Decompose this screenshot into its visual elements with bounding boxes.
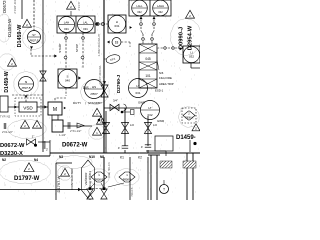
svg-text:031: 031 [135,91,140,95]
svg-text:18: 18 [115,40,119,44]
svg-text:(mat) HOLD 3: (mat) HOLD 3 [108,162,111,178]
svg-text:P807 B: P807 B [30,38,39,42]
svg-text:LO: LO [130,123,135,127]
svg-text:2-P807-3016-WA-PP: 2-P807-3016-WA-PP [98,33,101,56]
svg-text:K2: K2 [138,156,142,160]
svg-text:DIS: DIS [83,86,89,90]
svg-text:D1459-W: D1459-W [4,71,10,92]
svg-text:STANDBY: STANDBY [88,101,102,105]
svg-text:D3230-X: D3230-X [0,151,23,157]
svg-text:DUTY: DUTY [73,101,81,105]
svg-text:SY: SY [32,33,36,37]
svg-text:F&G FIRE: F&G FIRE [159,76,172,80]
svg-text:AREA TRIP: AREA TRIP [159,82,174,86]
svg-text:(mat) HOLD 3: (mat) HOLD 3 [88,170,92,187]
svg-text:LT: LT [148,106,151,110]
svg-text:D2954-W: D2954-W [188,25,194,50]
svg-text:031: 031 [64,27,69,31]
svg-text:LAHH: LAHH [157,4,164,8]
svg-text:SI: SI [25,80,28,84]
svg-text:START: START [58,43,62,53]
svg-text:2"X3/4"-3016: 2"X3/4"-3016 [13,0,17,14]
svg-text:032: 032 [137,10,142,14]
svg-text:LT: LT [136,84,139,88]
svg-text:VSD: VSD [23,106,33,111]
svg-text:STOP: STOP [75,44,79,52]
svg-text:T: T [163,188,165,192]
svg-text:N/6: N/6 [159,71,164,75]
svg-text:HOLD 5: HOLD 5 [131,187,134,196]
svg-text:D0672-W: D0672-W [62,143,88,149]
svg-text:2"X1'-6": 2"X1'-6" [77,1,81,10]
svg-text:032: 032 [189,54,194,58]
svg-text:D1459-W: D1459-W [7,18,12,37]
svg-text:P807 B: P807 B [22,86,31,90]
svg-text:101: 101 [145,74,151,78]
svg-text:031: 031 [83,27,88,31]
svg-text:VENDOR: VENDOR [84,172,88,186]
svg-text:LAL: LAL [83,21,88,25]
svg-text:D0672-W: D0672-W [0,143,25,149]
svg-text:2"X3/4"-3016-WA: 2"X3/4"-3016-WA [99,65,102,84]
svg-text:GWR: GWR [157,119,164,123]
svg-text:N4: N4 [34,158,38,162]
svg-text:P808 A: P808 A [185,117,193,120]
svg-text:N3: N3 [59,155,63,159]
svg-text:K1: K1 [120,156,124,160]
svg-text:032: 032 [147,113,152,117]
svg-text:LAH: LAH [64,21,69,25]
svg-text:N10: N10 [89,155,95,159]
svg-text:D2760-J: D2760-J [116,74,122,93]
svg-text:M: M [53,107,57,113]
svg-text:ESD-1: ESD-1 [155,89,164,93]
svg-text:1": 1" [32,135,35,139]
svg-text:D0990-J: D0990-J [179,27,185,49]
svg-text:P808 B: P808 B [95,178,104,182]
svg-text:031: 031 [114,24,119,28]
svg-text:D1459-: D1459- [176,135,196,141]
svg-text:N8: N8 [100,155,104,159]
svg-text:032: 032 [158,10,163,14]
svg-text:LALL: LALL [136,4,143,8]
svg-text:1-1/2": 1-1/2" [59,133,66,137]
svg-text:CONTRACTOR: CONTRACTOR [70,168,74,190]
svg-text:2'X1-1/2": 2'X1-1/2" [2,130,13,134]
svg-text:3/4": 3/4" [113,99,118,103]
svg-text:045: 045 [145,57,151,61]
svg-text:TYP. N2: TYP. N2 [0,115,11,119]
svg-text:040: 040 [65,78,70,82]
svg-text:P807: P807 [90,92,97,96]
svg-text:HS: HS [92,85,96,89]
svg-text:D0672-W: D0672-W [2,0,7,13]
svg-text:LO: LO [153,123,158,127]
svg-text:D1797-W: D1797-W [14,176,40,182]
svg-text:P808 B: P808 B [123,178,132,182]
svg-text:2"X1-1/2": 2"X1-1/2" [70,129,81,133]
